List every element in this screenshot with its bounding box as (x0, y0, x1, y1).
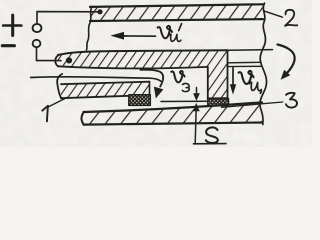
workpiece lower bar (hatched) (82, 102, 263, 124)
minus terminal symbol (2, 44, 14, 47)
label v_u : subscript u (249, 82, 261, 93)
label 1 leader (49, 97, 68, 106)
wire from + terminal to bar 2 (37, 12, 99, 24)
plus terminal symbol (3, 15, 21, 35)
band line under tool (161, 100, 208, 102)
prime mark (179, 24, 182, 31)
break line at right side (long) (260, 3, 267, 124)
tool head: hatched L-shape (arm + leg) (55, 50, 227, 98)
terminal circle (+) (33, 24, 42, 32)
rotation arrow (top right) (278, 45, 295, 80)
wire node on bar 2 (97, 9, 102, 14)
feed arrow v_u (down, right) (230, 68, 236, 95)
wire from - terminal to tool bar (37, 47, 62, 60)
band electrode line (31, 77, 161, 81)
workpiece bar 2 (top, hatched) (90, 4, 263, 21)
electrode block at end of bar 1 (129, 95, 151, 106)
gap label s (206, 127, 218, 143)
guide bar 1 (hatched) (57, 74, 149, 98)
gap label shelf (194, 143, 227, 145)
tool arm outline continued right of leg (228, 49, 273, 52)
label 2 (285, 10, 297, 26)
label 2 leader (264, 11, 283, 17)
gap dimension upper arrow (193, 88, 200, 101)
label 3 (286, 93, 297, 108)
label v_e : script v (171, 71, 184, 82)
feed arrow v_u' (left, horizontal) (110, 32, 155, 40)
label v_u' : script v (158, 26, 172, 38)
electrode block under tool leg (208, 99, 229, 106)
band speed arrow v_e (S-curve) (141, 70, 164, 99)
label v_e : subscript e (182, 83, 189, 91)
break line at left end of bar 2 (87, 7, 93, 51)
wire node on tool arm (66, 57, 72, 63)
label v_u : script v (239, 71, 254, 84)
label 1 (42, 106, 48, 122)
terminal circle (-) (33, 40, 41, 47)
gap dimension lower arrow (193, 103, 200, 144)
label 3 leader (222, 102, 283, 107)
label v_u' : subscript u (169, 34, 181, 41)
